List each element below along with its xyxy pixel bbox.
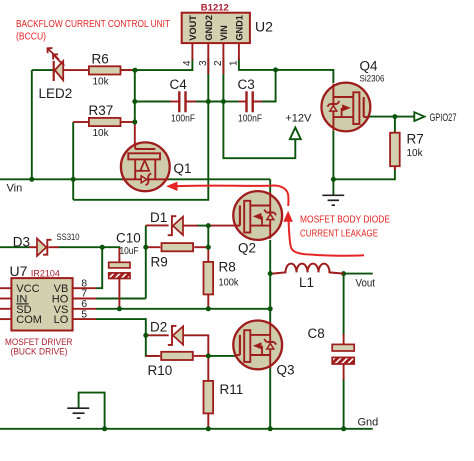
node R11 bottom on rail — [206, 426, 211, 431]
node VS switch node — [268, 306, 273, 311]
svg-text:VOUT: VOUT — [188, 15, 198, 41]
wire Q3 gate from node — [208, 355, 236, 357]
svg-text:VIN: VIN — [219, 25, 229, 41]
wire to C4 left — [135, 101, 170, 103]
wire Q2 source to Q3 drain column — [269, 240, 271, 323]
svg-text:LED2: LED2 — [39, 86, 73, 101]
svg-text:10k: 10k — [93, 128, 110, 139]
node D1/Q2 gate junction — [206, 223, 211, 228]
wire U2 pin2 stub — [222, 43, 224, 74]
svg-text:GPIO27: GPIO27 — [430, 112, 457, 124]
wire R9 left lead — [146, 246, 161, 248]
svg-text:R9: R9 — [151, 255, 168, 270]
node L1 left junction — [268, 271, 273, 276]
wire C3 left plate lead — [239, 101, 247, 103]
wire LED cathode column x=32 — [31, 70, 33, 179]
resistor R37 — [89, 103, 121, 139]
wire R9 right lead — [194, 246, 208, 248]
svg-text:100nF: 100nF — [171, 114, 195, 125]
wire Q4 gate to GPIO27 — [368, 116, 414, 118]
node R37 right junction — [132, 120, 137, 125]
wire R11 bottom lead — [207, 413, 209, 428]
annotation title BCCU — [16, 19, 170, 43]
capacitor C4 — [170, 77, 196, 125]
node LED column joins Vin — [29, 177, 34, 182]
wire U2 pin3 stub — [207, 43, 209, 74]
resistor R10 — [148, 352, 193, 378]
svg-text:BACKFLOW CURRENT CONTROL UNIT: BACKFLOW CURRENT CONTROL UNIT — [16, 19, 170, 30]
wire R37 right lead — [121, 121, 135, 123]
wire L1 right to Vout — [344, 273, 373, 275]
svg-text:U7: U7 — [10, 263, 28, 279]
node R7 top on GPIO row — [392, 114, 397, 119]
node C8 on rail — [341, 426, 346, 431]
capacitor C8 — [308, 326, 355, 364]
ground symbol left (bottom) — [67, 408, 89, 418]
wire C4 right plate lead — [185, 101, 196, 103]
wire D3 to C10 top corner — [58, 247, 120, 249]
wire Q3 gate stub into circle — [237, 355, 242, 357]
diode D2 — [150, 320, 183, 345]
svg-text:LO: LO — [54, 314, 69, 326]
svg-text:SS310: SS310 — [57, 232, 80, 243]
wire ground stem — [332, 179, 334, 195]
U7 pin numbers 8 7 6 5 — [81, 277, 87, 320]
wire row101 to C3 left — [223, 101, 238, 103]
wire D3 left lead from edge — [0, 246, 29, 248]
wire D3 cathode lead — [49, 246, 60, 248]
capacitor C10 — [109, 231, 141, 279]
svg-text:(BCCU): (BCCU) — [16, 32, 46, 43]
wire U7 VS stub pin6 — [73, 308, 96, 310]
svg-text:Q3: Q3 — [277, 363, 295, 378]
annotation text MOSFET BODY DIODE CURRENT LEAKAGE — [300, 215, 390, 240]
wire C4 right to VIN column — [185, 101, 223, 103]
wire VS row y=309 — [96, 308, 270, 310]
node GND1 row junction — [273, 67, 278, 72]
wire U7 IN stub — [0, 298, 11, 300]
wire VIN pin2 to +12V — [223, 58, 295, 158]
wire left ground symbol to rail — [79, 393, 105, 429]
wire R11 top lead — [207, 356, 209, 381]
svg-text:Vout: Vout — [356, 278, 376, 290]
wire C4 left plate lead — [170, 101, 179, 103]
svg-text:B1212: B1212 — [201, 3, 229, 14]
svg-text:10k: 10k — [93, 76, 110, 87]
svg-text:SD: SD — [16, 304, 31, 316]
svg-text:U2: U2 — [255, 19, 273, 35]
svg-text:COM: COM — [16, 314, 42, 326]
svg-text:R10: R10 — [148, 363, 173, 378]
node ground rail left junction — [102, 426, 107, 431]
diode D3 SS310 — [13, 232, 80, 256]
svg-text:C3: C3 — [238, 77, 255, 92]
node D2/LO junction — [143, 333, 148, 338]
wire R6 right lead — [121, 69, 133, 71]
svg-text:C4: C4 — [170, 77, 188, 92]
wire U7 LO stub pin5 — [73, 318, 96, 320]
LED LED2 — [39, 48, 73, 101]
node Vout junction — [341, 271, 346, 276]
wire R37 column x=73 — [72, 122, 74, 200]
wire R8 top lead — [207, 247, 209, 262]
wire C10 bottom lead — [118, 279, 120, 309]
svg-text:R37: R37 — [89, 103, 114, 118]
wire U2 pin4 stub — [191, 43, 193, 60]
node R9 left junction — [143, 245, 148, 250]
wire U7 VCC stub — [0, 287, 11, 289]
svg-text:CURRENT LEAKAGE: CURRENT LEAKAGE — [300, 229, 378, 240]
wire LED2 anode lead to R6 — [63, 69, 89, 71]
svg-text:Si2306: Si2306 — [360, 74, 385, 85]
resistor R9 — [151, 243, 194, 269]
wire LO to D2/R10 column — [96, 319, 158, 356]
ground symbol right (under Q4) — [322, 195, 344, 205]
wire U7 HO stub pin7 — [73, 298, 96, 300]
svg-text:R6: R6 — [92, 52, 109, 67]
wire C3 right up to GND1 row — [253, 70, 276, 102]
wire R10 left lead — [146, 355, 161, 357]
wire C8 top lead — [343, 334, 345, 344]
wire C8 bottom to ground rail — [343, 378, 345, 429]
svg-text:Q4: Q4 — [360, 59, 379, 74]
wire ground rail y=429 — [0, 428, 373, 430]
svg-text:R11: R11 — [220, 382, 244, 397]
wire R8 bottom lead — [207, 294, 209, 308]
IC U7 IR2104 — [10, 263, 73, 331]
node Q4 source ground junction — [331, 177, 336, 182]
node GND2 column on cap row — [206, 99, 211, 104]
wire D1 anode lead — [184, 225, 199, 227]
svg-text:GND1: GND1 — [235, 15, 245, 41]
wire VB pin to D3 node — [96, 247, 102, 288]
wire R7 vertical leads — [394, 132, 396, 171]
svg-text:IR2104: IR2104 — [31, 269, 60, 279]
wire D2 cathode lead — [146, 334, 169, 336]
node VIN column on cap row — [221, 99, 226, 104]
svg-text:GND2: GND2 — [204, 15, 214, 41]
svg-text:C8: C8 — [308, 326, 325, 341]
wire L1 left node — [270, 273, 272, 275]
wire ground node right to R7 bottom — [333, 167, 395, 179]
wire D2 anode lead down to R10 node — [184, 335, 209, 356]
inductor L1 — [273, 264, 344, 290]
svg-text:Vin: Vin — [7, 183, 23, 195]
wire Q4 source down to ground node — [332, 131, 334, 180]
node Q3 gate junction — [206, 353, 211, 358]
GPIO27 output terminal — [414, 112, 456, 124]
svg-text:C10: C10 — [116, 231, 141, 246]
wire R7 top to GPIO row — [394, 117, 396, 132]
node R37 column joins Vin — [71, 177, 76, 182]
wire U7 VB stub pin8 — [73, 287, 96, 289]
svg-text:D3: D3 — [13, 235, 30, 250]
svg-text:D1: D1 — [150, 210, 167, 225]
wire HO column x=146 — [145, 225, 147, 298]
node R8 bottom on VS row — [206, 306, 211, 311]
svg-text:+12V: +12V — [285, 112, 312, 124]
capacitor C3 — [238, 77, 263, 125]
wire U2 pin1 stub — [238, 43, 240, 60]
node R6 right junction — [133, 68, 138, 73]
svg-text:10k: 10k — [407, 148, 424, 159]
wire U7 SD stub — [0, 308, 11, 310]
wire D1 cathode lead — [146, 224, 169, 226]
node R9/R8 junction — [206, 245, 211, 250]
U2 pin numbers 4 3 2 1 — [182, 60, 240, 66]
svg-text:Q2: Q2 — [238, 241, 256, 256]
node C10 bottom on VS row — [117, 306, 122, 311]
wire U7 COM stub — [0, 318, 11, 320]
MOSFET Q3 — [233, 321, 282, 370]
svg-text:3: 3 — [198, 60, 209, 66]
resistor R8 — [204, 260, 240, 295]
svg-text:R8: R8 — [219, 260, 236, 275]
wire node column x=135 — [134, 70, 136, 122]
wire Vin to Q2 drain — [269, 179, 271, 193]
svg-text:Gnd: Gnd — [358, 417, 379, 429]
node Q3 source on rail — [268, 426, 273, 431]
svg-text:(BUCK DRIVE): (BUCK DRIVE) — [11, 347, 68, 358]
svg-text:MOSFET BODY DIODE: MOSFET BODY DIODE — [300, 215, 390, 226]
svg-text:100nF: 100nF — [238, 114, 262, 125]
wire Q3 source to ground rail — [269, 367, 271, 429]
wire D3 anode lead — [29, 246, 37, 248]
annotation arrow pointing up at Q2 leakage path — [283, 211, 364, 256]
svg-text:R7: R7 — [407, 132, 424, 147]
wire U2 pin1 row to Q4 drain — [239, 58, 334, 83]
wire Vin net horizontal rail y=179 — [0, 178, 270, 180]
resistor R7 — [390, 132, 424, 167]
svg-text:2: 2 — [213, 60, 224, 66]
MOSFET Q4 Si2306 — [322, 83, 371, 132]
module U2 B1212 — [182, 3, 273, 44]
wire Q2 gate lead — [208, 225, 235, 227]
svg-text:Q1: Q1 — [174, 161, 192, 176]
wire LED row to LED2 — [32, 69, 53, 71]
node C4 left junction — [132, 99, 137, 104]
wire R37 left lead — [73, 121, 89, 123]
svg-text:1: 1 — [229, 60, 240, 66]
svg-text:L1: L1 — [299, 275, 314, 290]
svg-text:5: 5 — [81, 308, 87, 320]
wire HO row — [96, 298, 146, 300]
wire C3 right plate lead — [253, 101, 263, 103]
MOSFET Q2 — [233, 191, 282, 240]
wire R6 to U2 pin4 — [121, 58, 193, 70]
svg-text:10uF: 10uF — [120, 246, 139, 257]
resistor R6 — [89, 52, 121, 88]
wire D1 anode to node — [196, 225, 208, 227]
wire C8 bottom lead — [343, 364, 345, 380]
wire D1 node to R9 node — [207, 226, 209, 248]
MOSFET Q1 — [121, 142, 170, 191]
+12V power symbol — [285, 112, 312, 139]
svg-text:4: 4 — [182, 60, 193, 66]
annotation arrow pointing at Q1 — [166, 182, 288, 206]
resistor R11 — [204, 381, 244, 414]
wire R10 right lead — [194, 355, 209, 357]
svg-text:D2: D2 — [150, 320, 167, 335]
diode D1 — [150, 210, 183, 235]
node D3/VB junction — [100, 245, 105, 250]
wire Vout node down to C8 — [343, 274, 345, 336]
wire Q1 gate lead from R37 node — [134, 122, 136, 149]
wire C10 top lead — [118, 248, 120, 262]
wire Vin link to GND2 column — [73, 58, 208, 200]
svg-text:100k: 100k — [219, 278, 240, 289]
